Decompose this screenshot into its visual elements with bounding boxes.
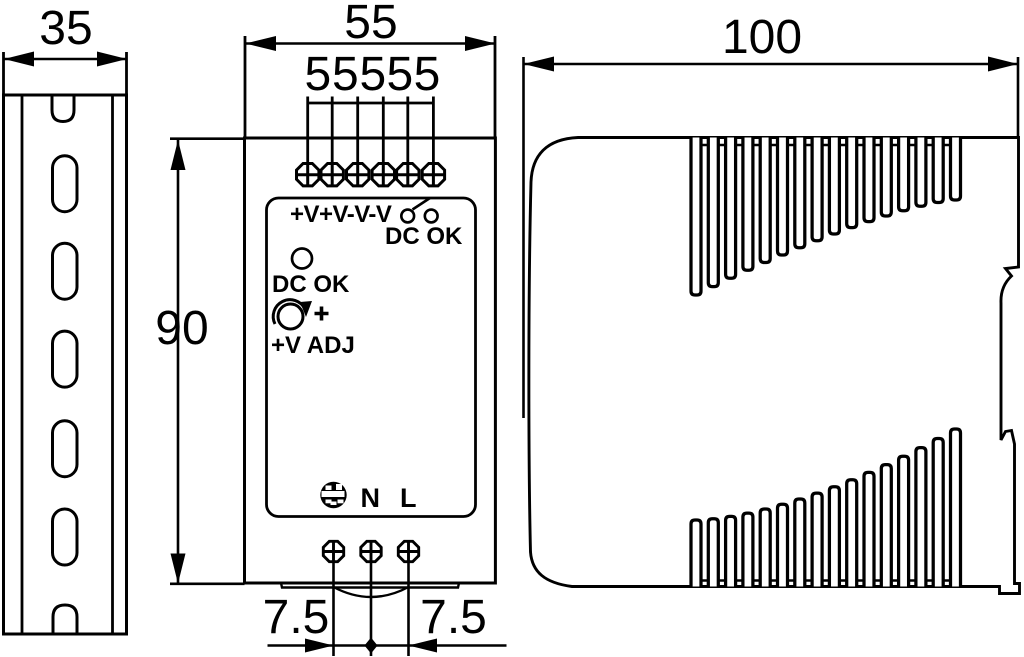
rail slot oval 4 [53,421,78,477]
dimension 90 vertical [171,140,186,584]
terminal leader line 3 [356,97,359,164]
bottom vent slot 2 [708,519,718,587]
extension line left of 55 dim [244,36,247,138]
svg-text:L: L [400,483,417,513]
rail slot oval 2 [53,243,78,299]
top vent slot 8 [812,138,822,241]
extension line right of 55 dim [494,36,497,138]
DIN rail outer outline [4,95,127,634]
bottom vent slot 1 [691,520,701,587]
terminal leader line 4 [382,97,385,164]
svg-text:DC OK: DC OK [272,271,350,298]
svg-text:5: 5 [332,48,359,101]
DC OK contact circle 1 [401,210,414,223]
top vent slot 12 [881,138,891,217]
svg-text:5: 5 [386,48,413,101]
top vent slot 6 [778,138,788,256]
terminal screw T6 [421,163,445,187]
DC OK LED circle [292,249,312,269]
potentiometer +V ADJ [273,300,312,329]
terminal screw PE [323,541,345,563]
bottom vent slot 8 [812,493,822,586]
bottom arc under body [334,587,409,597]
front panel rounded outline [267,198,476,517]
bottom leader line L [407,562,410,656]
protective earth symbol [320,482,346,508]
bottom vent slot 5 [760,509,770,587]
top vent slot 10 [847,138,857,228]
svg-text:7.5: 7.5 [263,591,330,644]
extension line left of 35 dim [2,52,5,95]
terminal leader line 1 [306,97,309,164]
terminal pitch connector line [308,102,434,105]
bottom leader line PE [332,562,335,656]
top vent slot 2 [708,138,718,287]
top vent slot 11 [864,138,874,222]
top vent slot 9 [829,138,839,235]
body outline side view [529,138,1020,594]
extension line right of 35 dim [125,52,128,95]
bottom vent slot 13 [899,456,909,586]
bottom vent connector line [691,579,961,582]
top vent connector line [691,144,961,147]
bottom vent slot 9 [829,487,839,587]
body bottom step [281,583,459,588]
plus sign at potentiometer [315,307,329,321]
svg-text:+V+V-V-V: +V+V-V-V [290,201,392,228]
terminal leader line 5 [406,97,409,164]
rail slot oval 3 [53,331,78,387]
svg-text:5: 5 [360,48,387,101]
svg-text:100: 100 [722,11,802,64]
DC OK contact pointer line [413,198,431,210]
svg-text:5: 5 [304,48,331,101]
svg-text:DC OK: DC OK [385,223,463,250]
extension line bottom of 90 dim [170,582,245,585]
bottom vent slot 10 [847,480,857,587]
DIN rail inner edge left [21,95,24,634]
rail top notch [52,95,74,122]
svg-text:35: 35 [39,2,92,55]
extension line left of 100 dim [522,57,525,418]
rail slot oval 5 [53,509,78,565]
terminal screw T5 [396,163,420,187]
DC OK contact circle 2 [425,210,438,223]
top vent slot 14 [916,138,926,207]
bottom vent slot 3 [726,516,736,586]
terminal screw T3 [346,163,370,187]
top vent slot 16 [951,138,961,201]
bottom vent slot 7 [795,499,805,587]
terminal leader line 6 [432,97,435,164]
terminal screw T1 [296,163,320,187]
top vent slot 1 [691,138,701,296]
bottom vent slot 4 [743,513,753,586]
terminal leader line 2 [331,97,334,164]
rail slot oval 1 [53,156,78,212]
terminal screw N [360,541,382,563]
terminal screw T4 [371,163,395,187]
top vent slot 15 [933,138,943,203]
bottom vent slot 11 [864,472,874,586]
svg-text:7.5: 7.5 [420,591,487,644]
svg-text:N: N [361,483,381,513]
top vent slot 5 [760,138,770,263]
dimension line 100 [524,57,1019,72]
extension line top of 90 dim [170,137,245,140]
terminal screw T2 [320,163,344,187]
bottom leader line N [370,562,373,656]
dimension line 55 [246,36,496,51]
body outline front view [245,138,496,583]
svg-text:90: 90 [155,302,208,355]
top vent slot 7 [795,138,805,248]
bottom vent slot 12 [881,465,891,587]
bottom vent slot 6 [778,504,788,586]
terminal screw L [398,541,420,563]
dimension line 35 [4,52,127,67]
top vent slot 13 [899,138,909,211]
extension line right of 100 dim [1017,57,1020,137]
dimension line 7.5 row [268,638,507,654]
bottom vent slot 15 [933,439,943,587]
DIN rail inner edge right [111,95,114,634]
svg-text:+V ADJ: +V ADJ [271,332,355,359]
svg-text:55: 55 [344,0,397,49]
bottom vent slot 16 [951,429,961,587]
rail bottom notch [53,605,77,634]
top vent slot 3 [726,138,736,279]
bottom vent slot 14 [916,448,926,587]
top vent slot 4 [743,138,753,271]
svg-text:5: 5 [414,48,441,101]
